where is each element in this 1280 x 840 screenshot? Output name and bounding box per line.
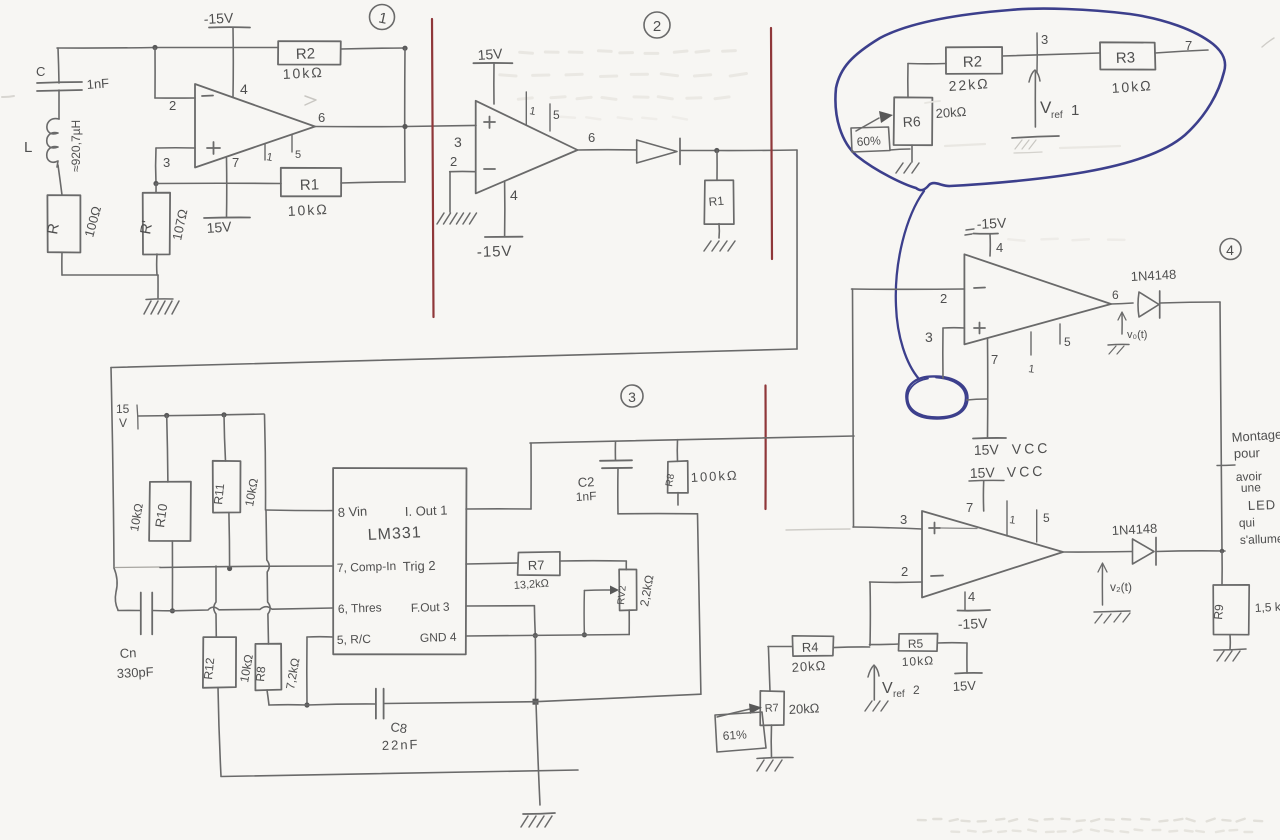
- wire R2 left to R6 top: [908, 64, 946, 98]
- node junction at minus input branch: [152, 45, 157, 50]
- pin 5 tick opamp2: [550, 104, 560, 131]
- svg-text:15V: 15V: [206, 218, 233, 236]
- svg-text:22nF: 22nF: [382, 737, 420, 753]
- svg-text:Trig 2: Trig 2: [403, 558, 436, 574]
- svg-text:R11: R11: [211, 483, 227, 506]
- resistor R9 load: [1211, 551, 1249, 635]
- svg-text:3: 3: [925, 329, 933, 345]
- pin 8 wire: [266, 509, 334, 512]
- R8 load bottom stub: [677, 493, 679, 506]
- svg-text:C2: C2: [577, 474, 594, 490]
- svg-text:LM331: LM331: [367, 524, 422, 544]
- wire diode4 to right bus: [1160, 302, 1220, 303]
- R12 top lead with hop: [214, 566, 217, 637]
- resistor R8 timing: [253, 644, 281, 691]
- pin 2 label opamp4: [940, 291, 947, 306]
- blue small blob: [906, 376, 967, 418]
- 61 percent box: [715, 712, 766, 752]
- resistor Rprime: [137, 193, 170, 255]
- LM331 label: [367, 524, 422, 544]
- resistor R11: [211, 415, 240, 513]
- pin 7 label bottom opamp: [966, 500, 973, 515]
- R10 value 10k: [127, 502, 146, 532]
- svg-text:qui: qui: [1239, 515, 1255, 530]
- R6 ground lead: [911, 145, 913, 162]
- bottom ground wire sloped: [221, 770, 578, 777]
- minus sign opamp4: [974, 287, 985, 290]
- wire top feedback rail: [57, 46, 278, 49]
- R value 100ohm: [81, 204, 104, 238]
- note text montage pour avoir une LED: [1231, 427, 1280, 547]
- LM331 pin 2 Trig label: [403, 558, 436, 574]
- wire minus input branch: [155, 48, 195, 98]
- GND pin4 wire: [466, 610, 629, 636]
- capacitor C value 1nF: [86, 75, 109, 92]
- wire output node vertical: [404, 48, 406, 182]
- svg-text:VCC: VCC: [1007, 463, 1046, 480]
- op-amp U1: [195, 84, 315, 168]
- svg-text:C8: C8: [390, 719, 409, 736]
- LM331 pin 3 F-Out label: [411, 600, 450, 615]
- junction C8 wire square: [533, 699, 539, 705]
- RV2 value 2.2k: [637, 574, 656, 608]
- pin 7 label opamp1: [232, 155, 239, 170]
- svg-text:7: 7: [1185, 38, 1192, 53]
- pin 3 label opamp2: [454, 134, 462, 150]
- svg-text:R4: R4: [802, 639, 819, 655]
- junction R11 top: [221, 412, 226, 417]
- pin 6 label opamp2: [588, 130, 595, 145]
- LM331 pin 5 R/C label: [337, 632, 372, 647]
- svg-text:1: 1: [1071, 102, 1079, 119]
- wire node to R1: [156, 182, 281, 184]
- R12 value 10k: [237, 653, 256, 683]
- plus input wire opamp4 to blob: [943, 328, 965, 378]
- v2(t) label: [1110, 580, 1132, 594]
- right bus vertical: [1220, 302, 1222, 551]
- svg-text:10kΩ: 10kΩ: [1111, 77, 1153, 96]
- junction right bus bottom: [1220, 549, 1225, 554]
- svg-text:V: V: [882, 680, 893, 697]
- 15V VCC bar opamp4: [973, 438, 1051, 458]
- wire diode to node: [680, 149, 797, 152]
- R2 value 22k: [948, 75, 990, 94]
- pin 6 label opamp1: [318, 110, 325, 125]
- blue circled region outline: [835, 9, 1225, 191]
- R6 wiper arrow: [856, 111, 893, 131]
- circled number 4: [1220, 239, 1241, 260]
- svg-text:10kΩ: 10kΩ: [282, 64, 324, 82]
- RV2 wiper arrow: [584, 586, 619, 595]
- LM331 pin 8 Vin label: [337, 503, 367, 520]
- R2 value 10k: [282, 64, 324, 82]
- wire R2 right to output node: [341, 46, 408, 51]
- svg-text:6: 6: [588, 130, 595, 145]
- svg-text:1nF: 1nF: [575, 489, 596, 504]
- R8 bottom lead: [267, 690, 269, 705]
- inductor L coil: [47, 90, 59, 167]
- pin 4 label opamp4: [996, 240, 1003, 255]
- R4 right wire: [833, 646, 869, 649]
- svg-text:15: 15: [116, 402, 130, 416]
- wire L to R: [58, 165, 62, 195]
- R8 value 7.2k: [283, 657, 302, 691]
- stray line in bottom opamp: [941, 527, 977, 530]
- svg-text:1N4148: 1N4148: [1130, 267, 1176, 284]
- wire section2 output down: [796, 150, 798, 349]
- minus sign opamp2: [484, 168, 495, 170]
- svg-text:L: L: [24, 139, 32, 156]
- svg-text:7: 7: [232, 155, 239, 170]
- capacitor C8 wire left: [269, 704, 376, 705]
- diode D5 label 1N4148: [1111, 521, 1157, 538]
- wire blob to vcc riser: [967, 399, 988, 400]
- node junction after diode2: [714, 148, 719, 153]
- svg-text:4: 4: [968, 589, 975, 604]
- ground symbol R1 load: [704, 241, 735, 251]
- circled number 1: [370, 5, 395, 30]
- plus sign opamp2: [484, 117, 495, 129]
- diode D4 label 1N4148: [1130, 267, 1176, 284]
- faint erased scribble in blue region: [925, 101, 1120, 148]
- capacitor C plates: [37, 82, 82, 91]
- svg-text:R8: R8: [253, 665, 268, 682]
- op-amp U5: [922, 511, 1063, 598]
- 15V bar R5: [952, 673, 982, 694]
- pin 1 tick opamp4: [1028, 332, 1036, 376]
- v0(t) label: [1127, 329, 1147, 341]
- negative supply -15V opamp4: [965, 214, 1007, 256]
- resistor R7 section3: [466, 552, 560, 576]
- wire R7 to RV2: [560, 561, 627, 570]
- svg-text:I. Out 1: I. Out 1: [405, 503, 448, 519]
- node 3 tick: [1037, 32, 1048, 72]
- svg-text:8 Vin: 8 Vin: [337, 503, 367, 520]
- svg-text:2: 2: [901, 564, 908, 579]
- svg-text:v₀(t): v₀(t): [1127, 329, 1147, 341]
- R6 value 20k: [935, 104, 967, 121]
- capacitor C2: [600, 442, 632, 514]
- ground symbol R6: [896, 163, 919, 173]
- R7 pot bottom lead: [770, 725, 772, 757]
- stray faint marks: [2, 38, 1274, 97]
- R9 bottom lead: [1229, 635, 1231, 649]
- R5 left wire: [870, 643, 899, 646]
- pin 7 riser bottom opamp: [982, 481, 984, 511]
- long wire to section 3 input: [111, 349, 797, 368]
- v2 ground mark: [1094, 611, 1130, 623]
- C2 label: [577, 474, 594, 490]
- C8 label: [390, 719, 409, 736]
- resistor R1 load section2: [704, 151, 734, 225]
- pin5 R/C wire: [307, 637, 333, 705]
- R9 value 1.5k: [1254, 600, 1280, 615]
- blue tail curve: [896, 191, 924, 379]
- svg-text:7: 7: [991, 352, 998, 367]
- resistor R3 blue region: [1100, 42, 1155, 69]
- vcc vertical to pin8: [265, 415, 266, 510]
- v0 ground mark: [1108, 344, 1129, 354]
- svg-text:6: 6: [318, 110, 325, 125]
- svg-text:13,2kΩ: 13,2kΩ: [513, 578, 549, 592]
- section3 input vertical: [111, 368, 114, 569]
- vertical bus x853: [853, 289, 854, 527]
- ground symbol R9: [1214, 649, 1246, 661]
- svg-text:ref: ref: [1051, 110, 1063, 121]
- svg-text:2: 2: [169, 98, 176, 113]
- svg-text:22kΩ: 22kΩ: [948, 75, 990, 94]
- svg-text:-15V: -15V: [976, 214, 1007, 232]
- RV2 wiper down wire: [583, 591, 585, 635]
- plus sign bottom opamp: [929, 523, 940, 534]
- paper show-through smudges: [500, 51, 1262, 833]
- svg-text:10kΩ: 10kΩ: [901, 653, 934, 669]
- plus sign opamp1: [207, 142, 220, 154]
- Vref1 ground bar: [1012, 136, 1059, 153]
- R7 pot wiper arrow: [717, 704, 762, 718]
- pin 7 label opamp4: [991, 352, 998, 367]
- resistor R: [44, 195, 80, 252]
- resistor R12: [201, 637, 236, 688]
- LM331 pin 6 Thres label: [338, 600, 382, 616]
- R5 value 10k: [901, 653, 934, 669]
- svg-text:20kΩ: 20kΩ: [791, 658, 827, 675]
- red separator line 3: [764, 386, 766, 510]
- svg-text:15V: 15V: [970, 464, 996, 481]
- svg-text:R1: R1: [708, 194, 725, 209]
- Cn value 330pF: [116, 664, 154, 681]
- C8 value 22nF: [382, 737, 420, 753]
- svg-text:2: 2: [913, 683, 920, 697]
- svg-text:GND 4: GND 4: [420, 630, 457, 645]
- Cn label: [119, 645, 136, 661]
- pin 3 label bottom opamp: [900, 512, 907, 527]
- svg-text:5, R/C: 5, R/C: [337, 632, 372, 647]
- R11 value 10k: [242, 477, 261, 507]
- ground symbol opamp2: [437, 213, 477, 224]
- v0(t) arrow: [1118, 312, 1126, 334]
- svg-text:2: 2: [653, 18, 661, 35]
- svg-text:2: 2: [450, 154, 457, 169]
- opamp2 output wire: [578, 149, 637, 151]
- junction pin3 gnd wire: [533, 633, 538, 638]
- Vref2 arrow: [868, 665, 879, 700]
- F.Out pin3 wire: [466, 606, 535, 636]
- svg-text:Cn: Cn: [119, 645, 136, 661]
- ground vertical bottom center: [536, 702, 540, 805]
- 15V VCC label bottom opamp: [969, 463, 1046, 481]
- v2(t) arrow: [1098, 563, 1107, 605]
- svg-text:-15V: -15V: [203, 9, 234, 27]
- svg-text:4: 4: [996, 240, 1003, 255]
- Vref2 label: [882, 680, 920, 700]
- wire R3 right: [1155, 50, 1208, 53]
- threshold pin6 wire with hops: [172, 607, 333, 611]
- svg-text:R9: R9: [1211, 603, 1226, 620]
- svg-text:R7: R7: [528, 557, 545, 573]
- junction R10 top: [164, 413, 169, 418]
- svg-text:100kΩ: 100kΩ: [690, 468, 739, 485]
- opamp1 output wire: [315, 125, 476, 126]
- op-amp U4: [964, 254, 1111, 344]
- wire plus input branch: [156, 148, 195, 184]
- svg-text:15V: 15V: [974, 441, 1000, 458]
- svg-text:pour: pour: [1234, 445, 1261, 461]
- red separator line 1: [432, 19, 434, 317]
- minus input wire bottom opamp: [870, 582, 922, 645]
- inductor L label: [24, 139, 32, 156]
- wire C top to feedback node: [58, 48, 59, 83]
- resistor R2 opamp1 feedback: [278, 41, 341, 65]
- output node junction opamp1: [402, 124, 407, 129]
- svg-text:une: une: [1241, 480, 1262, 495]
- wire R2 to R3: [1003, 53, 1101, 56]
- 15V rail section3: [138, 414, 264, 416]
- svg-text:330pF: 330pF: [116, 664, 154, 681]
- pin 5 tick opamp1: [292, 135, 301, 161]
- minus input to ground opamp2: [450, 171, 476, 212]
- pin 5 tick opamp4: [1060, 324, 1071, 349]
- wire R1 right to output vertical: [341, 182, 405, 183]
- junction RV2 wiper gnd: [582, 632, 587, 637]
- svg-text:3: 3: [454, 134, 462, 150]
- 15V supply label section3: [116, 402, 138, 430]
- diode D2: [637, 138, 680, 164]
- tick on right bus: [1217, 464, 1235, 467]
- svg-text:4: 4: [510, 187, 518, 203]
- plus sign opamp4: [974, 323, 985, 334]
- diode D4 1N4148: [1138, 291, 1160, 318]
- pin 3 label opamp4: [925, 329, 933, 345]
- right vertical down to C8 wire: [698, 514, 701, 694]
- svg-text:7, Comp-In: 7, Comp-In: [337, 559, 397, 575]
- R1 value 10k: [287, 201, 329, 219]
- pin 4 supply -15V bottom opamp: [958, 592, 991, 632]
- pin 1 tick bottom opamp: [1007, 501, 1016, 536]
- svg-text:VCC: VCC: [1012, 440, 1051, 457]
- svg-text:-15V: -15V: [477, 243, 513, 261]
- svg-text:RV2: RV2: [616, 585, 629, 606]
- potentiometer RV2: [616, 569, 637, 610]
- svg-text:3: 3: [163, 155, 170, 170]
- svg-text:s'allume: s'allume: [1240, 531, 1280, 547]
- input s-bend to Cn: [114, 568, 118, 610]
- C2 bottom wire: [618, 513, 698, 515]
- LM331 IC box: [333, 468, 466, 654]
- svg-text:F.Out 3: F.Out 3: [411, 600, 450, 615]
- svg-text:15V: 15V: [952, 678, 976, 694]
- circled number 3: [621, 385, 643, 407]
- junction R11 bottom: [227, 566, 232, 571]
- resistor R1 opamp1 feedback: [281, 168, 341, 197]
- svg-text:LED: LED: [1248, 497, 1277, 513]
- resistor R4: [768, 636, 834, 656]
- svg-text:2: 2: [940, 291, 947, 306]
- node 7 label: [1185, 38, 1192, 53]
- ground symbol section1: [144, 299, 179, 314]
- svg-text:R2: R2: [963, 53, 983, 71]
- LM331 pin 1 I-Out label: [405, 503, 448, 519]
- R1 load bottom lead: [718, 224, 720, 238]
- svg-text:6: 6: [1112, 288, 1119, 302]
- comparator pin7 wire: [114, 566, 333, 568]
- R7 pot value 20k: [788, 700, 820, 717]
- svg-text:5: 5: [1064, 335, 1071, 349]
- R7 value 13.2k: [513, 578, 549, 592]
- pin 3 label opamp1: [163, 155, 170, 170]
- ground symbol Vref2: [865, 701, 888, 711]
- svg-text:10kΩ: 10kΩ: [287, 201, 329, 219]
- pin 2 label bottom opamp: [901, 564, 908, 579]
- potentiometer R7 bottom: [760, 691, 784, 726]
- resistor R5: [899, 634, 938, 652]
- vcc vertical continues to R8 with hops: [266, 510, 270, 644]
- R3 value 10k: [1111, 77, 1153, 96]
- svg-text:4: 4: [1226, 242, 1234, 258]
- svg-text:R7: R7: [764, 702, 779, 715]
- pin 7 supply 15V opamp1: [204, 158, 250, 236]
- pin1 output wire up: [466, 443, 531, 509]
- svg-text:5: 5: [1043, 511, 1050, 525]
- junction pin5 C8 wire: [304, 702, 309, 707]
- svg-text:15V: 15V: [477, 45, 504, 63]
- long wire pin1 to vertical bus: [530, 436, 854, 443]
- LM331 pin 7 Comp-In label: [337, 559, 397, 575]
- R8 load value 100k: [690, 468, 739, 485]
- minus sign opamp1: [202, 95, 213, 98]
- svg-text:1nF: 1nF: [86, 75, 109, 92]
- capacitor Cn: [118, 593, 172, 635]
- minus sign bottom opamp: [931, 575, 943, 578]
- svg-text:3: 3: [1041, 32, 1048, 47]
- faint triangle mark: [305, 96, 316, 105]
- node junction plus input: [153, 181, 158, 186]
- faint dashed wire left of plus input: [786, 529, 850, 530]
- svg-text:3: 3: [900, 512, 907, 527]
- svg-text:V: V: [119, 416, 127, 430]
- svg-text:R3: R3: [1116, 49, 1136, 67]
- pin 2 label opamp1: [169, 98, 176, 113]
- ground symbol bottom center: [521, 813, 555, 827]
- R10 bottom lead: [171, 541, 173, 611]
- bottom opamp output wire: [1063, 551, 1132, 554]
- resistor R10: [149, 416, 191, 542]
- svg-text:R6: R6: [902, 113, 921, 130]
- svg-text:5: 5: [295, 149, 301, 161]
- svg-text:6, Thres: 6, Thres: [338, 600, 382, 616]
- Rprime value 107ohm: [169, 208, 190, 242]
- pin 5 tick bottom opamp: [1037, 510, 1050, 542]
- svg-text:60%: 60%: [856, 133, 881, 149]
- red separator line 2: [771, 28, 772, 259]
- capacitor C label: [36, 64, 45, 79]
- pin 4 label bottom opamp: [968, 589, 975, 604]
- Vref1 label: [1040, 98, 1079, 121]
- inductor value 920.7uH: [69, 120, 83, 172]
- svg-text:61%: 61%: [722, 727, 747, 743]
- svg-text:R8: R8: [664, 473, 677, 488]
- svg-text:1,5 k: 1,5 k: [1254, 600, 1280, 615]
- R4 value 20k: [791, 658, 827, 675]
- diode D5 1N4148: [1133, 538, 1157, 566]
- pin 4 supply -15V opamp2: [477, 181, 523, 261]
- pin 4 label opamp2: [510, 187, 518, 203]
- ground symbol R7 pot: [757, 757, 793, 771]
- pin 1 tick opamp2: [526, 92, 536, 125]
- svg-text:7: 7: [966, 500, 973, 515]
- junction R10 bottom: [170, 608, 175, 613]
- R11 bottom lead: [228, 513, 231, 569]
